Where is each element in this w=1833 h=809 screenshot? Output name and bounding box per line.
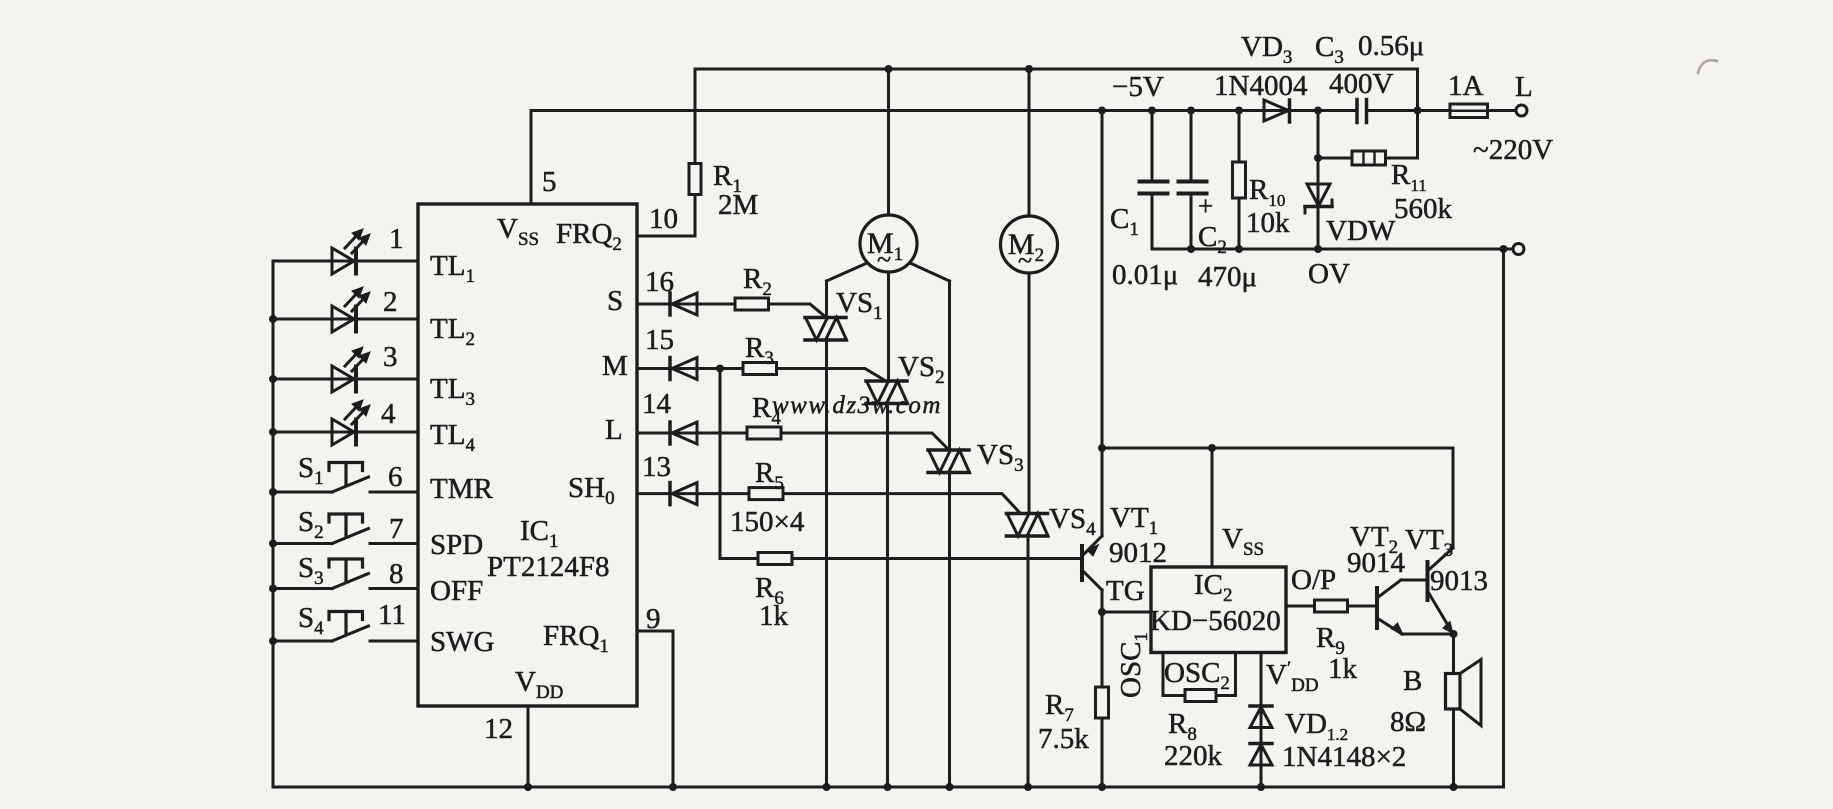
diode pin 16 (S row) [637, 303, 735, 306]
svg-text:12: 12 [484, 713, 513, 745]
svg-text:M: M [602, 350, 628, 382]
svg-text:10k: 10k [1246, 207, 1290, 239]
svg-text:8Ω: 8Ω [1390, 706, 1426, 738]
svg-text:VD1.2: VD1.2 [1285, 708, 1348, 744]
svg-text:TL2: TL2 [430, 313, 475, 350]
zener diode VDW [1317, 111, 1320, 250]
wire top rail FRQ2/motors [695, 69, 1418, 157]
svg-text:O/P: O/P [1291, 564, 1336, 596]
wire right side vertical [1502, 249, 1505, 787]
svg-text:VDW: VDW [1326, 215, 1396, 247]
diodes VD1 VD2 1N4148x2 [1260, 653, 1263, 788]
wire audio top rail [1102, 447, 1453, 450]
svg-text:R5: R5 [755, 457, 784, 494]
transistor VT1 9012 [1101, 448, 1104, 536]
resistor R11 560k [1318, 157, 1352, 160]
svg-text:1: 1 [389, 223, 404, 255]
motor M1 leads [827, 263, 868, 281]
junction VDW node [1314, 107, 1322, 115]
junction [885, 65, 893, 73]
switch S2 [273, 542, 332, 545]
svg-text:S1: S1 [298, 452, 324, 489]
wire pin 12 VDD to bottom rail [527, 706, 530, 787]
svg-text:15: 15 [645, 324, 674, 356]
svg-text:4: 4 [381, 398, 396, 430]
svg-text:VSS: VSS [497, 213, 539, 250]
diode pin 15 (M row) [637, 367, 743, 370]
transistor VT2 9014 [1375, 588, 1379, 628]
triac VS2 [887, 380, 890, 384]
switch S4 [273, 640, 332, 643]
terminal 0V [1513, 244, 1524, 255]
svg-text:FRQ2: FRQ2 [556, 218, 622, 255]
svg-text:FRQ1: FRQ1 [543, 620, 609, 657]
svg-text:VT1: VT1 [1110, 502, 1158, 539]
svg-text:SH0: SH0 [568, 472, 615, 509]
junction TG node [1098, 608, 1106, 616]
svg-text:C2: C2 [1198, 221, 1227, 258]
junction [269, 375, 277, 383]
triac VS4 [1007, 512, 1048, 516]
svg-text:B: B [1403, 665, 1422, 697]
junction IC2 feed [1098, 107, 1106, 115]
svg-text:470μ: 470μ [1198, 261, 1257, 293]
junction [269, 488, 277, 496]
motor M2 [1028, 69, 1031, 216]
svg-text:KD−56020: KD−56020 [1150, 605, 1281, 637]
svg-text:V′DD: V′DD [1266, 658, 1319, 696]
svg-text:0.56μ: 0.56μ [1358, 30, 1424, 62]
transistor VT3 9013 [1426, 562, 1430, 600]
resistor R1 2M [694, 69, 697, 164]
svg-text:1k: 1k [1328, 653, 1358, 685]
IC U1 PT2124F8 body [418, 204, 637, 706]
svg-text:S2: S2 [298, 506, 324, 543]
junction [269, 637, 277, 645]
wire VSS supply rail [531, 109, 1357, 112]
switch S1 [273, 491, 332, 494]
resistor R4 [747, 427, 781, 439]
OSC2 pins and R8 220k [1162, 653, 1165, 696]
svg-text:S4: S4 [298, 602, 324, 639]
svg-text:C1: C1 [1110, 203, 1139, 240]
wire to triac gate [777, 369, 886, 381]
svg-text:IC2: IC2 [1194, 569, 1233, 606]
resistor R7 7.5k [1101, 612, 1104, 687]
svg-text:16: 16 [645, 266, 674, 298]
capacitor C2 470u [1190, 111, 1193, 182]
svg-text:S3: S3 [298, 552, 324, 589]
svg-text:8: 8 [389, 558, 404, 590]
svg-text:OFF: OFF [430, 575, 483, 607]
svg-text:OSC1: OSC1 [1115, 632, 1152, 698]
svg-text:150×4: 150×4 [730, 506, 805, 538]
svg-text:TG: TG [1106, 575, 1145, 607]
resistor R6 1k [758, 553, 792, 565]
svg-text:9: 9 [646, 603, 661, 635]
svg-text:1N4004: 1N4004 [1214, 70, 1308, 102]
wire 0V rail [1152, 248, 1513, 251]
svg-text:VS4: VS4 [1049, 503, 1096, 540]
diode pin 13 (SH0 row) [637, 492, 749, 495]
svg-text:VS2: VS2 [898, 351, 945, 388]
svg-text:VDD: VDD [515, 666, 563, 703]
resistor R3 [743, 363, 777, 375]
svg-text:OSC2: OSC2 [1164, 657, 1230, 694]
svg-text:R2: R2 [743, 263, 772, 300]
resistor R10 10k [1238, 111, 1241, 163]
svg-text:13: 13 [642, 451, 671, 483]
svg-text:0.01μ: 0.01μ [1112, 259, 1178, 291]
capacitor C3 0.56u 400V [1355, 100, 1359, 123]
svg-text:L: L [1515, 71, 1533, 103]
svg-text:C3: C3 [1315, 31, 1344, 68]
capacitor C1 0.01u [1151, 111, 1154, 182]
svg-text:11: 11 [378, 599, 406, 631]
svg-text:5: 5 [542, 166, 557, 198]
svg-text:7.5k: 7.5k [1038, 723, 1089, 755]
svg-text:7: 7 [389, 513, 404, 545]
svg-text:+: + [1198, 191, 1213, 221]
junction [269, 585, 277, 593]
svg-text:2M: 2M [718, 189, 758, 221]
wire pin 5 VSS to rail [530, 111, 533, 205]
junction right drop [1500, 245, 1508, 253]
svg-text:L: L [605, 414, 623, 446]
svg-text:400V: 400V [1329, 68, 1394, 100]
wire to triac gate [783, 494, 1020, 513]
svg-text:www.dz3w.com: www.dz3w.com [772, 392, 942, 419]
svg-text:6: 6 [388, 461, 403, 493]
fuse 1A [1418, 109, 1451, 112]
diode VD3 1N4004 [1264, 100, 1289, 121]
wire FRQ2 pin 10 [637, 235, 695, 238]
resistor R9 1k [1315, 600, 1348, 612]
wire to audio section [1101, 111, 1104, 449]
wire O/P [1286, 605, 1315, 608]
resistor R2 [735, 298, 769, 310]
svg-text:R10: R10 [1249, 174, 1285, 210]
motor M1 [887, 69, 890, 215]
svg-text:OV: OV [1308, 258, 1350, 290]
terminal L [1516, 105, 1527, 116]
wire to triac gate [769, 304, 826, 317]
wire to triac gate [781, 433, 948, 449]
junction [269, 428, 277, 436]
svg-text:TL3: TL3 [430, 373, 475, 410]
svg-text:1k: 1k [759, 600, 789, 632]
LED TL3 [273, 378, 418, 381]
svg-text:9014: 9014 [1347, 547, 1406, 579]
junction [269, 540, 277, 548]
svg-text:14: 14 [642, 388, 672, 420]
svg-text:PT2124F8: PT2124F8 [487, 551, 609, 583]
svg-text:~: ~ [1018, 246, 1032, 275]
svg-text:TL1: TL1 [430, 250, 475, 287]
svg-text:VS3: VS3 [977, 439, 1024, 476]
svg-text:VD3: VD3 [1241, 31, 1292, 68]
wire R6 to VT1 base [792, 557, 1082, 560]
svg-text:VSS: VSS [1222, 523, 1264, 560]
triac VS3 [948, 281, 951, 450]
svg-text:1N4148×2: 1N4148×2 [1282, 741, 1406, 773]
svg-text:R11: R11 [1391, 159, 1427, 195]
IC U2 KD-56020 body [1151, 567, 1286, 653]
wire VSS to IC2 [1211, 448, 1214, 567]
triac VS1 [825, 281, 828, 318]
wire bottom rail [273, 786, 1504, 789]
svg-text:~220V: ~220V [1473, 134, 1553, 166]
svg-text:−5V: −5V [1112, 71, 1164, 103]
wire left bus vertical [272, 261, 275, 787]
LED TL4 [273, 431, 418, 434]
svg-text:TMR: TMR [430, 473, 494, 505]
switch S3 [273, 587, 332, 590]
wire TG [1102, 611, 1151, 614]
svg-text:R7: R7 [1045, 689, 1074, 726]
svg-text:VT3: VT3 [1405, 524, 1453, 561]
svg-text:560k: 560k [1394, 193, 1453, 225]
svg-text:IC1: IC1 [520, 515, 559, 552]
svg-text:9013: 9013 [1430, 565, 1488, 597]
svg-text:1A: 1A [1448, 70, 1484, 102]
LED TL2 [273, 318, 418, 321]
wire M row to R6 [716, 365, 724, 373]
svg-text:TL4: TL4 [430, 419, 475, 456]
svg-text:220k: 220k [1164, 740, 1223, 772]
svg-text:VS1: VS1 [836, 287, 883, 324]
svg-text:R3: R3 [745, 332, 774, 369]
junction [269, 315, 277, 323]
wire pin 9 FRQ1 [637, 631, 673, 787]
svg-text:~: ~ [877, 245, 891, 274]
speaker B 8ohm [1452, 634, 1455, 674]
svg-text:3: 3 [383, 341, 398, 373]
svg-text:10: 10 [649, 203, 678, 235]
LED TL1 [273, 260, 418, 263]
svg-text:9012: 9012 [1109, 537, 1167, 569]
scan artifact [1698, 60, 1717, 73]
svg-text:SPD: SPD [430, 529, 483, 561]
svg-text:SWG: SWG [430, 626, 495, 658]
svg-text:S: S [607, 285, 623, 317]
diode pin 14 (L row) [637, 432, 747, 435]
resistor R5 [749, 488, 783, 500]
svg-text:2: 2 [383, 286, 398, 318]
